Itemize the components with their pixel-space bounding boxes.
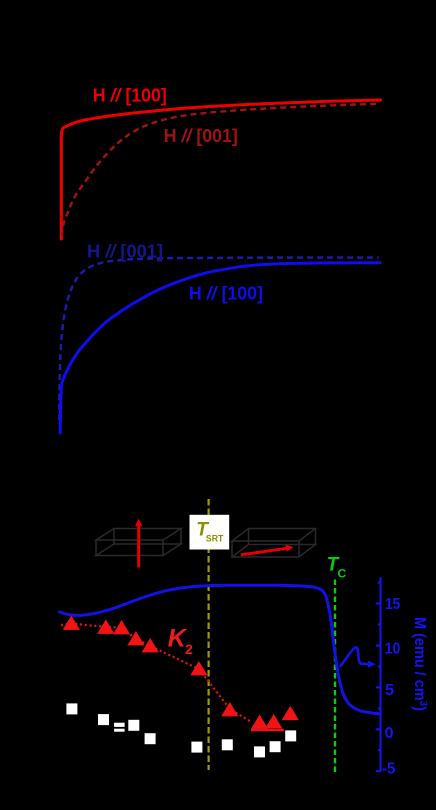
red arrow in right slab xyxy=(241,545,294,557)
curve blue dashed H//[001] xyxy=(59,258,378,420)
white box T_SRT xyxy=(190,515,230,550)
dashed green vertical line T_c xyxy=(334,580,336,774)
white equals marks xyxy=(114,723,125,732)
svg-text:-5: -5 xyxy=(382,761,395,778)
slab left (wireframe box) xyxy=(96,529,181,556)
svg-text:H // [100]: H // [100] xyxy=(189,284,263,304)
red solid segment under triangles xyxy=(251,729,284,732)
svg-text:M (emu / cm3): M (emu / cm3) xyxy=(411,617,429,711)
svg-text:H // [001]: H // [001] xyxy=(87,242,163,262)
dashed olive vertical line T_SRT xyxy=(208,499,210,770)
red triangles K2 data xyxy=(63,616,299,729)
svg-text:H // [100]: H // [100] xyxy=(93,86,167,106)
svg-text:C: C xyxy=(338,567,347,581)
curve blue solid H//[100] xyxy=(60,263,380,433)
svg-text:2: 2 xyxy=(185,641,193,657)
white squares data xyxy=(66,703,296,757)
curve red solid H//[100] xyxy=(61,100,380,239)
svg-text:15: 15 xyxy=(385,596,400,613)
curve red dashed H//[001] xyxy=(62,104,376,236)
red dotted K2 line xyxy=(61,624,252,723)
svg-text:5: 5 xyxy=(385,682,394,699)
svg-text:10: 10 xyxy=(385,640,401,657)
svg-text:H // [001]: H // [001] xyxy=(164,126,238,146)
right axis tick labels xyxy=(382,596,400,778)
svg-text:0: 0 xyxy=(385,725,394,742)
annotation arrow (curve to right axis) xyxy=(340,647,370,666)
slab right (wireframe box) xyxy=(232,529,316,558)
red arrow up through left slab xyxy=(135,519,142,568)
curve blue M(T) xyxy=(60,585,380,714)
right axis blue xyxy=(376,577,381,772)
svg-text:SRT: SRT xyxy=(206,534,224,545)
